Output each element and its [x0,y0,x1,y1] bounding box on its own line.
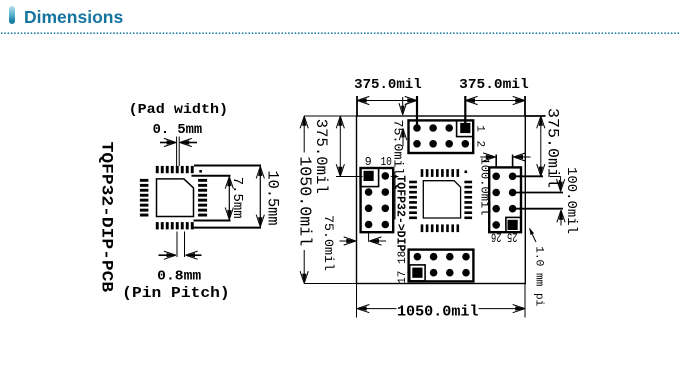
svg-text:1.0 mm pi: 1.0 mm pi [533,246,545,306]
svg-text:1050.0mil: 1050.0mil [397,304,479,321]
svg-text:17 18: 17 18 [397,251,409,284]
svg-text:2: 2 [473,140,485,147]
svg-text:375.0mil: 375.0mil [354,77,422,93]
svg-text:26: 26 [491,230,502,244]
svg-text:100.0mil: 100.0mil [563,167,579,234]
svg-text:TQFP32->DIP: TQFP32->DIP [394,175,407,251]
svg-text:7.5mm: 7.5mm [229,177,245,219]
svg-text:TQFP32-DIP-PCB: TQFP32-DIP-PCB [98,142,116,293]
svg-text:(Pin Pitch): (Pin Pitch) [122,285,230,302]
svg-text:1050.0mil: 1050.0mil [295,156,314,246]
svg-text:10.5mm: 10.5mm [263,171,281,226]
svg-text:75.0mil: 75.0mil [321,215,336,271]
svg-text:1: 1 [473,125,485,132]
svg-text:375.0mil: 375.0mil [312,119,330,194]
svg-text:9: 9 [365,156,372,169]
svg-text:375.0mil: 375.0mil [459,77,529,93]
svg-text:0. 5mm: 0. 5mm [153,122,203,138]
svg-text:10: 10 [380,156,392,169]
svg-text:(Pad width): (Pad width) [129,102,229,118]
svg-text:0.8mm: 0.8mm [157,269,201,285]
svg-text:100.0mil: 100.0mil [477,158,491,216]
svg-text:25: 25 [507,230,518,244]
